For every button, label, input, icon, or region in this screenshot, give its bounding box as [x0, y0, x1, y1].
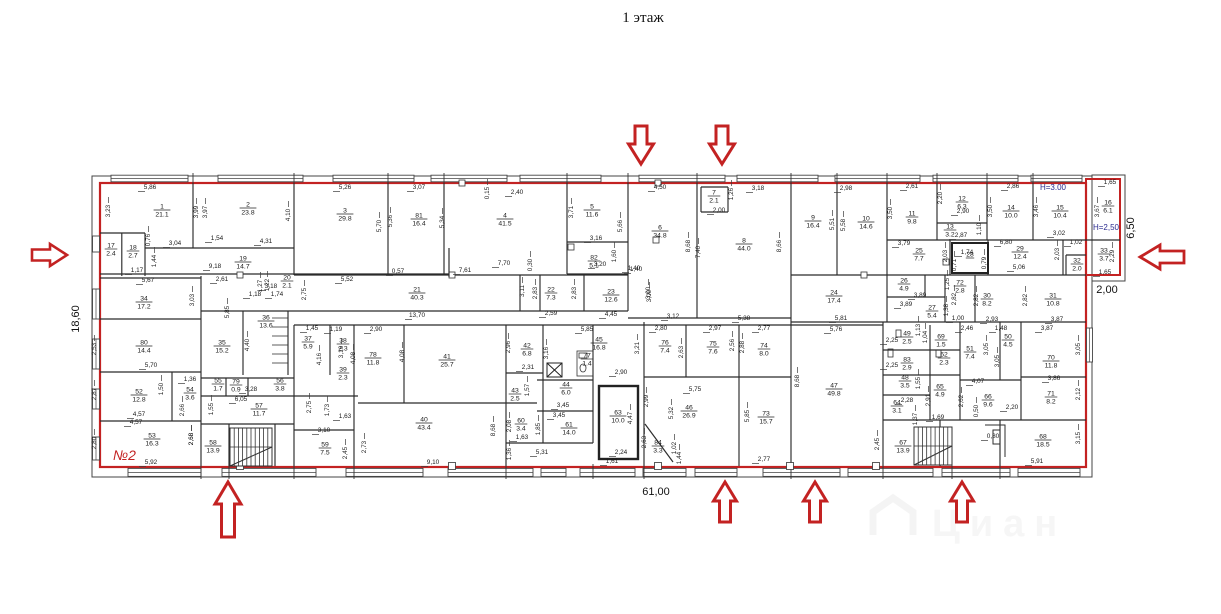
wall v (728,187)-(728,212) [727, 187, 729, 212]
svg-text:16.3: 16.3 [145, 441, 158, 448]
svg-text:2,03: 2,03 [942, 249, 949, 262]
svg-text:1: 1 [160, 204, 164, 211]
svg-text:4,47: 4,47 [627, 411, 634, 424]
svg-text:23: 23 [607, 289, 615, 296]
svg-text:8.0: 8.0 [759, 351, 769, 358]
svg-text:5,81: 5,81 [835, 315, 848, 322]
svg-text:3,16: 3,16 [338, 345, 345, 358]
wall h (358,403)-(506,403) [358, 402, 506, 404]
svg-text:73: 73 [762, 411, 770, 418]
wall v (567,183)-(567,274) [566, 183, 568, 274]
svg-text:16: 16 [1104, 200, 1112, 207]
wall v (987,183)-(987,240) [986, 183, 988, 240]
svg-text:1,13: 1,13 [915, 323, 922, 336]
svg-text:2,61: 2,61 [216, 276, 229, 283]
svg-text:2.7: 2.7 [128, 253, 138, 260]
wall h (887,240)-(1086,240) [887, 239, 1086, 241]
svg-text:13,70: 13,70 [409, 312, 425, 319]
svg-text:0,15: 0,15 [484, 186, 491, 199]
svg-text:7.6: 7.6 [708, 349, 718, 356]
svg-text:9.8: 9.8 [907, 219, 917, 226]
wall v (540,275)-(540,311) [539, 275, 541, 311]
svg-text:3,05: 3,05 [994, 354, 1001, 367]
svg-text:80: 80 [140, 340, 148, 347]
svg-text:4,31: 4,31 [260, 238, 273, 245]
room 66 [982, 394, 995, 409]
svg-text:4,45: 4,45 [605, 311, 618, 318]
svg-text:9.6: 9.6 [983, 402, 993, 409]
svg-text:3,04: 3,04 [169, 240, 182, 247]
svg-text:1,65: 1,65 [1104, 179, 1117, 186]
svg-text:2,00: 2,00 [713, 207, 726, 214]
wall v (925,275)-(925,297) [924, 275, 926, 297]
svg-text:10: 10 [862, 216, 870, 223]
svg-text:16.4: 16.4 [806, 223, 819, 230]
room 78 [365, 352, 382, 367]
svg-text:2,46: 2,46 [961, 325, 974, 332]
svg-text:5,86: 5,86 [144, 184, 157, 191]
svg-text:2.5: 2.5 [510, 396, 520, 403]
wall h (100,319)-(201,319) [100, 318, 201, 320]
room 81 [411, 213, 428, 228]
svg-text:2,03: 2,03 [1054, 247, 1061, 260]
svg-text:42: 42 [523, 343, 531, 350]
room 80 [136, 340, 153, 355]
room 9 [805, 215, 822, 230]
svg-text:44.0: 44.0 [737, 246, 750, 253]
svg-text:53: 53 [148, 433, 156, 440]
room 40 [416, 417, 433, 432]
room 19 [235, 256, 252, 271]
svg-text:Циан: Циан [932, 503, 1067, 545]
svg-text:34: 34 [140, 296, 148, 303]
svg-text:5,70: 5,70 [376, 219, 383, 232]
room 61 [561, 422, 578, 437]
svg-text:2,90: 2,90 [957, 208, 970, 215]
wall v (1000,322)-(1000,380) [999, 322, 1001, 380]
wall v (644,322)-(644,466) [643, 322, 645, 466]
svg-text:2,00: 2,00 [1096, 284, 1117, 296]
svg-text:11.8: 11.8 [1045, 363, 1058, 370]
wall v (121.8,233)-(121.8,276) [121, 233, 123, 276]
svg-text:78: 78 [369, 352, 377, 359]
wall v (945,275)-(945,322) [944, 275, 946, 322]
svg-text:32: 32 [1073, 258, 1081, 265]
svg-text:4,10: 4,10 [285, 208, 292, 221]
svg-text:4,08: 4,08 [350, 351, 357, 364]
svg-text:2,87: 2,87 [955, 232, 968, 239]
room 12 [956, 196, 969, 211]
wall v (791,183)-(791,466) [790, 183, 792, 466]
svg-text:2,77: 2,77 [758, 325, 771, 332]
outer wall boundary main [92, 176, 1092, 477]
svg-text:23.8: 23.8 [241, 210, 254, 217]
measure ticks [95, 179, 1113, 467]
svg-text:1,02: 1,02 [1070, 239, 1083, 246]
svg-text:18,60: 18,60 [70, 305, 82, 333]
svg-text:5,85: 5,85 [224, 305, 231, 318]
svg-text:26: 26 [900, 278, 908, 285]
room 6 [652, 225, 669, 240]
room 37 [302, 336, 315, 351]
wall h (644,377)-(791,377) [644, 376, 791, 378]
svg-text:11: 11 [908, 211, 915, 218]
room 39 [337, 367, 350, 382]
wall v (1000,420)-(1000,466) [999, 420, 1001, 466]
svg-text:17.2: 17.2 [137, 304, 150, 311]
svg-text:2,29: 2,29 [1109, 249, 1116, 262]
svg-text:1,69: 1,69 [932, 414, 945, 421]
svg-text:10.8: 10.8 [1046, 301, 1059, 308]
svg-text:2,88: 2,88 [739, 340, 746, 353]
svg-text:18: 18 [129, 245, 137, 252]
svg-text:1,10: 1,10 [976, 222, 983, 235]
room 53 [144, 433, 161, 448]
room 84 [652, 440, 665, 455]
wall h (100,278)-(201,278) [100, 277, 201, 279]
svg-text:3,79: 3,79 [898, 240, 911, 247]
wall v (686,325)-(686,377) [685, 325, 687, 377]
window room 17 left edge [93, 236, 100, 252]
room 63 [610, 410, 627, 425]
svg-text:4: 4 [503, 213, 507, 220]
svg-text:8,68: 8,68 [490, 423, 497, 436]
svg-text:2,82: 2,82 [973, 293, 980, 306]
room 60 [515, 418, 528, 433]
svg-text:7,61: 7,61 [459, 267, 472, 274]
room 56 [274, 378, 287, 393]
svg-text:45: 45 [595, 337, 603, 344]
shaft with X [547, 363, 562, 377]
svg-text:2,25: 2,25 [886, 337, 899, 344]
svg-text:0,79: 0,79 [981, 256, 988, 269]
wall v (584,275)-(584,311) [583, 275, 585, 311]
room 70 [1043, 355, 1060, 370]
svg-text:1,85: 1,85 [535, 422, 542, 435]
svg-text:2.1: 2.1 [282, 283, 292, 290]
red arrow bottom 2 [714, 482, 737, 522]
svg-text:5,70: 5,70 [145, 362, 158, 369]
room 73 [758, 411, 775, 426]
wall h (883,350)-(960,350) [883, 349, 960, 351]
svg-text:3,97: 3,97 [202, 205, 209, 218]
svg-text:57: 57 [255, 403, 263, 410]
svg-text:70: 70 [1047, 355, 1055, 362]
wall h (883,420)-(1086,420) [883, 419, 1086, 421]
svg-text:2,93: 2,93 [986, 316, 999, 323]
svg-text:9,10: 9,10 [427, 459, 440, 466]
room 83 [901, 357, 914, 372]
wall v (950,240)-(950,275) [949, 240, 951, 275]
svg-text:0,71: 0,71 [951, 258, 958, 271]
svg-text:54: 54 [186, 387, 194, 394]
svg-text:3,20: 3,20 [594, 261, 607, 268]
svg-text:3.2: 3.2 [945, 232, 955, 239]
svg-text:40: 40 [420, 417, 428, 424]
svg-text:16.4: 16.4 [412, 221, 425, 228]
room 24 [826, 290, 843, 305]
svg-text:72: 72 [956, 280, 964, 287]
svg-text:66: 66 [984, 394, 992, 401]
svg-text:2,83: 2,83 [571, 286, 578, 299]
svg-text:11.6: 11.6 [586, 212, 599, 219]
svg-text:46: 46 [685, 405, 693, 412]
room labels [105, 190, 1115, 457]
wall v (1021,322)-(1021,420) [1020, 322, 1022, 420]
svg-text:5,52: 5,52 [341, 276, 354, 283]
wall h (567,242)-(628,242) [567, 241, 628, 243]
windows left edge [93, 289, 100, 319]
svg-text:5,51: 5,51 [829, 217, 836, 230]
wall h (201,396)-(358,396) [201, 395, 358, 397]
svg-text:1,74: 1,74 [271, 291, 284, 298]
svg-text:H=3.00: H=3.00 [1040, 183, 1067, 192]
svg-text:2,45: 2,45 [874, 437, 881, 450]
wall h (567,274)-(628,274) [567, 273, 628, 275]
svg-text:1,48: 1,48 [995, 325, 1008, 332]
svg-text:2,91: 2,91 [925, 393, 932, 406]
svg-text:2,61: 2,61 [906, 183, 919, 190]
svg-text:76: 76 [661, 340, 669, 347]
svg-text:24: 24 [830, 290, 838, 297]
svg-text:4,57: 4,57 [130, 419, 143, 426]
svg-text:5,36: 5,36 [387, 214, 394, 227]
red arrow bottom 1 [215, 482, 241, 537]
room 10 [858, 216, 875, 231]
svg-text:75: 75 [709, 341, 717, 348]
wall h (960,380)-(1021,380) [960, 379, 1021, 381]
svg-text:43.4: 43.4 [417, 425, 430, 432]
svg-text:5,58: 5,58 [840, 218, 847, 231]
room 31 [1045, 293, 1062, 308]
room 11 [906, 211, 919, 226]
svg-text:1,38: 1,38 [943, 303, 950, 316]
svg-text:3,12: 3,12 [667, 313, 680, 320]
wall v (294,325)-(294,466) [293, 325, 295, 466]
interior walls [100, 183, 1120, 466]
svg-text:3,99: 3,99 [193, 205, 200, 218]
svg-text:21: 21 [413, 287, 421, 294]
svg-text:0,57: 0,57 [392, 268, 405, 275]
svg-text:2,82: 2,82 [951, 292, 958, 305]
junction ticks [192, 173, 194, 186]
svg-text:4.9: 4.9 [899, 286, 909, 293]
svg-text:1,50: 1,50 [158, 382, 165, 395]
svg-text:7.5: 7.5 [320, 450, 330, 457]
svg-text:47: 47 [830, 383, 838, 390]
svg-text:58: 58 [209, 440, 217, 447]
svg-text:7,70: 7,70 [498, 260, 511, 267]
svg-text:3,23: 3,23 [105, 204, 112, 217]
room 48 [899, 375, 912, 390]
svg-text:2,90: 2,90 [615, 369, 628, 376]
svg-text:1,74: 1,74 [961, 249, 974, 256]
wall h (791,275)-(1086,275) [791, 274, 1086, 276]
svg-text:1,57: 1,57 [524, 383, 531, 396]
svg-text:2,25: 2,25 [886, 362, 899, 369]
svg-text:7: 7 [712, 190, 716, 197]
svg-text:59: 59 [321, 442, 329, 449]
wall v (937,183)-(937,240) [936, 183, 938, 240]
svg-text:11.7: 11.7 [253, 411, 266, 418]
wall v (226,378)-(226,396) [225, 378, 227, 396]
wall v (960,322)-(960,420) [959, 322, 961, 420]
svg-text:2.3: 2.3 [939, 360, 949, 367]
room 4 [497, 213, 514, 228]
room 50 [1002, 334, 1015, 349]
wall v (193,183)-(193,248) [192, 183, 194, 248]
svg-text:34.8: 34.8 [653, 233, 666, 240]
svg-text:2,66: 2,66 [179, 403, 186, 416]
wall v (988,240)-(988,275) [987, 240, 989, 275]
svg-text:3,45: 3,45 [553, 412, 566, 419]
svg-text:68: 68 [1039, 434, 1047, 441]
svg-text:37: 37 [304, 336, 312, 343]
svg-text:3.6: 3.6 [185, 395, 195, 402]
svg-text:1,54: 1,54 [211, 235, 224, 242]
svg-text:2,75: 2,75 [306, 400, 313, 413]
wall h (883,395)-(930,395) [883, 394, 930, 396]
svg-text:1,73: 1,73 [324, 403, 331, 416]
svg-text:2,63: 2,63 [641, 435, 648, 448]
svg-text:2,99: 2,99 [643, 394, 650, 407]
wall h (100,233)-(145,233) [100, 232, 145, 234]
dimension labels [91, 179, 1117, 466]
red arrow left [32, 244, 67, 266]
svg-text:2.4: 2.4 [106, 251, 116, 258]
svg-text:3.4: 3.4 [516, 426, 526, 433]
svg-text:22: 22 [547, 287, 555, 294]
staircase left [230, 428, 272, 466]
svg-text:19: 19 [239, 256, 247, 263]
wall h (294,430)-(354,430) [294, 429, 354, 431]
room 62 [938, 352, 951, 367]
vent shaft room 63 [599, 386, 638, 459]
wall h (100,372)-(201,372) [100, 371, 201, 373]
red arrow bottom 4 [951, 482, 974, 522]
svg-text:14.7: 14.7 [236, 264, 249, 271]
wall h (537,380)-(593,380) [537, 379, 593, 381]
svg-text:2,08: 2,08 [506, 419, 513, 432]
windows bottom edge [128, 468, 201, 476]
svg-text:4,16: 4,16 [316, 352, 323, 365]
wall v (201,276)-(201,466) [200, 276, 202, 466]
svg-text:5.4: 5.4 [927, 313, 937, 320]
svg-text:8.2: 8.2 [982, 301, 992, 308]
svg-text:12.4: 12.4 [1013, 254, 1026, 261]
outer wall boundary extension [1092, 175, 1125, 281]
wall h (537,411)-(593,411) [537, 410, 593, 412]
svg-text:17: 17 [107, 243, 115, 250]
svg-text:2,56: 2,56 [729, 338, 736, 351]
svg-text:44: 44 [562, 382, 570, 389]
svg-text:1,04: 1,04 [922, 330, 929, 343]
svg-text:81: 81 [415, 213, 423, 220]
svg-text:2,12: 2,12 [1075, 387, 1082, 400]
svg-text:1,19: 1,19 [330, 326, 343, 333]
svg-text:25.7: 25.7 [440, 362, 453, 369]
svg-text:1,60: 1,60 [611, 249, 618, 262]
svg-text:2,68: 2,68 [188, 432, 195, 445]
wall h (628,318)-(791,318) [628, 317, 791, 319]
svg-text:29: 29 [1016, 246, 1024, 253]
room 22 [545, 287, 558, 302]
wall v (1063,240)-(1063,275) [1062, 240, 1064, 275]
wall v (593,325)-(593,443) [592, 325, 594, 443]
svg-text:8,68: 8,68 [685, 239, 692, 252]
room 33 [1098, 248, 1111, 263]
svg-text:5,76: 5,76 [830, 326, 843, 333]
svg-text:10.4: 10.4 [1053, 213, 1066, 220]
svg-text:3,00: 3,00 [646, 289, 653, 302]
room 57 [251, 403, 268, 418]
room 79 [230, 379, 243, 394]
svg-text:5,75: 5,75 [689, 386, 702, 393]
svg-text:26.9: 26.9 [682, 413, 695, 420]
windows top edge [111, 175, 188, 182]
room 5 [584, 204, 601, 219]
svg-text:3.5: 3.5 [900, 383, 910, 390]
svg-text:52: 52 [135, 389, 143, 396]
svg-text:2,40: 2,40 [511, 189, 524, 196]
room 54 [184, 387, 197, 402]
svg-text:5,34: 5,34 [439, 215, 446, 228]
svg-text:50: 50 [1004, 334, 1012, 341]
wall v (275,424)-(275,466) [274, 424, 276, 466]
wall v (404,325)-(404,403) [403, 325, 405, 403]
svg-text:6.0: 6.0 [561, 390, 571, 397]
wall h (883,375)-(960,375) [883, 374, 960, 376]
svg-text:3,28: 3,28 [245, 386, 258, 393]
room 43 [509, 388, 522, 403]
room 27 [926, 305, 939, 320]
wall h (201,378)-(294,378) [201, 377, 294, 379]
svg-text:74: 74 [760, 343, 768, 350]
svg-text:14.0: 14.0 [562, 430, 575, 437]
lift shaft room 28 [952, 243, 988, 273]
room 18 [127, 245, 140, 260]
svg-text:79: 79 [232, 379, 240, 386]
svg-text:60: 60 [517, 418, 525, 425]
svg-text:8,66: 8,66 [776, 239, 783, 252]
svg-text:7,40: 7,40 [695, 245, 702, 258]
svg-text:3,46: 3,46 [1033, 204, 1040, 217]
svg-text:5: 5 [590, 204, 594, 211]
svg-text:6.8: 6.8 [522, 351, 532, 358]
closet 0,80 walls [985, 425, 1005, 457]
svg-text:5,85: 5,85 [581, 326, 594, 333]
svg-text:3,87: 3,87 [1041, 325, 1054, 332]
room 67 [895, 440, 912, 455]
svg-text:6,50: 6,50 [1125, 217, 1137, 238]
svg-text:2,63: 2,63 [678, 345, 685, 358]
svg-text:33: 33 [1100, 248, 1108, 255]
room 8 [736, 238, 753, 253]
wall h (201,424)-(294,424) [201, 423, 294, 425]
room 23 [603, 289, 620, 304]
wall v (243,311)-(243,375) [242, 311, 244, 375]
svg-text:3,71: 3,71 [568, 205, 575, 218]
room 76 [659, 340, 672, 355]
room 74 [758, 343, 771, 358]
wall diagonal room 84 [645, 424, 673, 462]
svg-text:56: 56 [276, 378, 284, 385]
room 45 [591, 337, 608, 352]
wall h (791,322)-(1086,322) [791, 321, 1086, 323]
wall v (697,183)-(697,318) [696, 183, 698, 318]
wall v (1066,255)-(1066,275) [1065, 255, 1067, 275]
svg-text:3,15: 3,15 [1075, 431, 1082, 444]
